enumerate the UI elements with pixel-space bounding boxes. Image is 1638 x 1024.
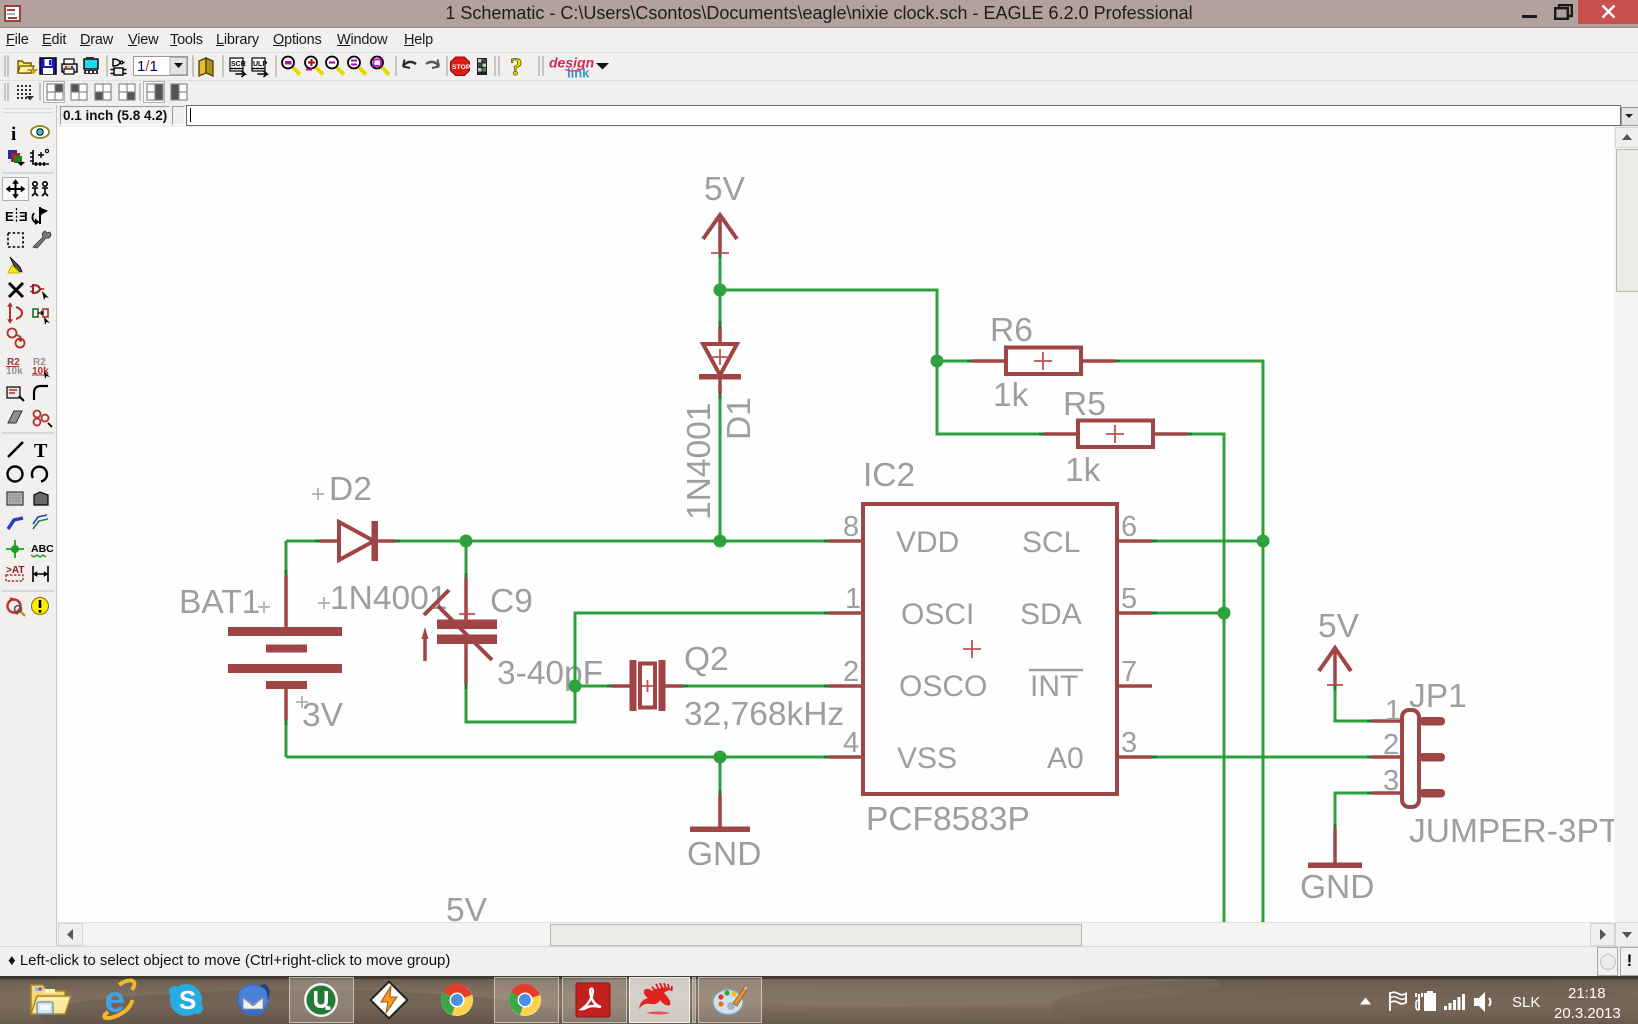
tray: speaker: [1474, 992, 1491, 1012]
copy: [32, 182, 48, 196]
wire SDA to rail: [1152, 612, 1224, 615]
open icon: [18, 61, 36, 73]
delete: [9, 283, 23, 297]
polygon tool: [34, 492, 48, 505]
attribute tool: [6, 565, 24, 581]
svg-text:5V: 5V: [1318, 608, 1360, 645]
wire tool: [8, 442, 23, 457]
svg-text:D1: D1: [721, 397, 758, 440]
pinswap: [8, 303, 23, 324]
svg-text:Ǝ: Ǝ: [19, 209, 28, 224]
grid setup: [30, 149, 49, 166]
library icon: [199, 58, 213, 76]
wire R5 branch: [937, 361, 1044, 434]
Chrome icon: [441, 984, 473, 1016]
svg-text:32,768kHz: 32,768kHz: [684, 696, 844, 733]
wire battery bottom to VSS rail: [285, 720, 288, 757]
svg-text:?: ?: [510, 54, 523, 80]
taskbar: [0, 976, 1638, 1024]
svg-text:PCF8583P: PCF8583P: [866, 801, 1030, 838]
svg-text:6: 6: [1121, 511, 1137, 543]
node junction crystal tap: [569, 680, 582, 693]
origin cross BAT1: [258, 601, 270, 613]
crystal Q2: [575, 660, 683, 711]
pin connection nubs (dark green): [286, 253, 1372, 829]
wire R5 right to SDA rail: [1187, 434, 1224, 922]
node junction D1/rail: [714, 535, 727, 548]
smash: [7, 387, 24, 401]
wire A0 to JP1 pin 2: [1152, 756, 1372, 759]
jumper JP1: [1372, 710, 1445, 807]
svg-text:JUMPER-3PT: JUMPER-3PT: [1409, 813, 1614, 850]
stop sign: [451, 57, 471, 76]
svg-text:E: E: [5, 209, 14, 224]
svg-text:OSCI: OSCI: [901, 598, 974, 631]
svg-text:1k: 1k: [1065, 452, 1101, 489]
svg-text:VDD: VDD: [896, 526, 959, 559]
sheet combo: [134, 57, 188, 76]
tray: power/battery: [1416, 992, 1435, 1010]
svg-text:INT: INT: [1030, 670, 1078, 703]
wire SCL to rail: [1152, 540, 1263, 543]
arc tool: [32, 467, 47, 482]
taskbar button frames: [290, 978, 762, 1023]
origin cross 3V: [296, 696, 308, 708]
svg-text:20.3.2013: 20.3.2013: [1554, 1005, 1621, 1022]
svg-text:SLK: SLK: [1512, 994, 1540, 1011]
svg-text:7: 7: [1121, 656, 1137, 688]
svg-text:8: 8: [843, 511, 859, 543]
svg-text:BAT1: BAT1: [179, 584, 260, 621]
left tool palette: [0, 105, 57, 946]
SCR icon: [230, 58, 246, 77]
menu bar: [0, 28, 1638, 52]
label tool: [31, 543, 54, 557]
diode D2 (1N4001, horizontal): [320, 521, 395, 561]
bus tool: [8, 518, 23, 529]
wire VSS rail: [286, 756, 829, 759]
EAGLE icon: [639, 983, 673, 1015]
svg-text:1: 1: [845, 583, 861, 615]
status bar: [0, 946, 1638, 977]
wire battery top to rail: [285, 541, 288, 575]
junction tool: [6, 540, 24, 558]
cut: [8, 257, 22, 273]
value: [32, 357, 50, 379]
Paint palette icon: [713, 986, 748, 1015]
wire 5V to JP1 pin 1: [1335, 685, 1372, 721]
gate icon: [111, 59, 126, 75]
supply 5V (top) arrow symbol: [703, 215, 737, 239]
svg-text:i: i: [11, 124, 16, 145]
rect tool: [7, 492, 23, 505]
undo / redo: [403, 60, 416, 69]
resistor R5: [1044, 421, 1187, 448]
save icon: [40, 58, 56, 74]
svg-text:VSS: VSS: [897, 742, 957, 775]
origin cross 1N4001: [318, 597, 330, 609]
svg-text:1/1: 1/1: [137, 58, 158, 75]
circle tool: [8, 467, 23, 482]
diode D1 (1N4001, vertical): [699, 326, 741, 394]
grid icon: [17, 85, 34, 101]
ULP icon: [252, 58, 267, 77]
svg-text:2: 2: [1383, 729, 1399, 761]
schematic canvas: [57, 127, 1614, 922]
wire D1 bottom to rail: [719, 394, 722, 541]
svg-text:5: 5: [1121, 583, 1137, 615]
svg-text:Q2: Q2: [684, 641, 729, 678]
miter: [34, 386, 48, 400]
gateswap: [8, 329, 25, 348]
svg-text:ABC: ABC: [31, 543, 54, 555]
origin cross D2: [312, 488, 324, 500]
svg-text:C9: C9: [490, 583, 533, 620]
node junction SDA: [1218, 607, 1231, 620]
add: [30, 285, 49, 300]
svg-text:3: 3: [1383, 765, 1399, 797]
svg-text:1k: 1k: [993, 377, 1029, 414]
Thunderbird icon: [237, 984, 270, 1016]
wire 5V pin to junction: [719, 253, 722, 290]
tray: network bars: [1444, 994, 1465, 1010]
node junction GND tap: [714, 751, 727, 764]
Internet Explorer icon: [104, 979, 134, 1020]
svg-text:D2: D2: [329, 471, 372, 508]
svg-text:SCL: SCL: [1022, 526, 1080, 559]
toolbars: [0, 52, 1638, 81]
net tool: [33, 515, 48, 529]
wire R6 right to SCL rail: [1115, 361, 1263, 922]
show eye: [31, 126, 49, 138]
supply 5V (right) arrow symbol: [1319, 648, 1351, 671]
svg-text:3V: 3V: [302, 697, 344, 734]
tray: hidden icons arrow: [1360, 998, 1371, 1005]
node junction SCL: [1257, 535, 1270, 548]
print icon: [62, 59, 77, 74]
svg-text:JP1: JP1: [1409, 678, 1467, 715]
group: [8, 233, 23, 247]
svg-text:ULP: ULP: [253, 61, 267, 68]
wire Q2 to OSCO pin 2: [683, 685, 829, 688]
node junction R6/R5 branch: [931, 355, 944, 368]
rotate: [32, 207, 47, 225]
svg-text:GND: GND: [1300, 869, 1374, 906]
ground GND (right): [1308, 829, 1362, 868]
move (selected): [3, 178, 29, 201]
export/CAM icon: [84, 57, 98, 74]
replace: [33, 309, 50, 325]
wire C9 bottom loop to OSCI: [466, 613, 829, 722]
svg-text:5V: 5V: [446, 892, 488, 922]
svg-text:21:18: 21:18: [1568, 985, 1606, 1002]
traffic light icon: [477, 58, 487, 75]
scrollbars: [1614, 127, 1638, 946]
svg-text:3: 3: [1121, 727, 1137, 759]
svg-text:OSCO: OSCO: [899, 670, 987, 703]
warning !: [32, 598, 49, 615]
uTorrent icon: [304, 983, 338, 1017]
File Explorer icon: [31, 985, 71, 1014]
IC2 PCF8583P: [829, 504, 1152, 794]
invoke: [34, 411, 53, 428]
svg-text:A0: A0: [1047, 742, 1084, 775]
svg-text:R5: R5: [1063, 386, 1106, 423]
display layers: [8, 150, 25, 166]
svg-text:4: 4: [843, 727, 859, 759]
node junction at 5V/D1: [714, 284, 727, 297]
battery BAT1: [228, 575, 342, 720]
svg-text:S: S: [179, 985, 196, 1015]
svg-text:STOP: STOP: [452, 64, 471, 71]
Skype icon: [169, 984, 203, 1016]
resistor R6: [972, 348, 1115, 375]
svg-text:T: T: [34, 440, 48, 462]
wire D1 top: [719, 290, 722, 326]
mirror: [5, 208, 28, 224]
node junction C9 branch: [460, 535, 473, 548]
svg-text:link: link: [567, 66, 590, 81]
wire JP1 pin 3 to ground: [1335, 793, 1372, 829]
ground GND (middle): [690, 757, 750, 832]
svg-text:1N4001: 1N4001: [681, 403, 718, 520]
Adobe Reader icon: [576, 983, 610, 1017]
zoom tools: [282, 54, 609, 81]
wire R6 left: [937, 360, 972, 363]
wire to IC pin 8: [720, 540, 829, 543]
window layout icons: [44, 82, 188, 103]
name: [6, 357, 23, 377]
wire junction to corner (top rail): [720, 290, 937, 361]
dimension tool: [33, 566, 48, 582]
split: [8, 411, 22, 423]
svg-text:10k: 10k: [6, 366, 23, 377]
wire top rail (battery/D2/C9/D1 to IC pin8): [286, 540, 320, 543]
wire junction to D1 junction: [466, 540, 720, 543]
svg-text:SCR: SCR: [231, 61, 246, 68]
svg-text:2: 2: [843, 656, 859, 688]
tray: flag: [1390, 992, 1406, 1011]
wire D2 to junction: [395, 540, 466, 543]
window title bar: [0, 0, 1638, 28]
Winamp icon: [371, 982, 408, 1019]
change wrench: [33, 231, 51, 248]
svg-text:GND: GND: [687, 836, 761, 873]
svg-text:IC2: IC2: [863, 457, 915, 494]
capacitor C9 (trimmer): [422, 541, 498, 684]
svg-text:5V: 5V: [704, 171, 746, 208]
svg-text:R6: R6: [990, 312, 1033, 349]
errors tool: [8, 598, 26, 616]
svg-text:SDA: SDA: [1020, 598, 1082, 631]
svg-text:1: 1: [1385, 695, 1401, 727]
